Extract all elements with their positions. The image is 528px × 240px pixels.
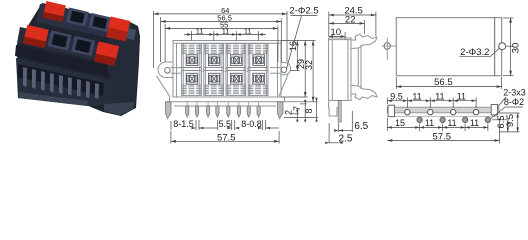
dimension 16 [281,41,300,71]
footprint top row holes [405,109,479,114]
dimension 8-1.5 / 5.5 / 8-0.8 [171,120,279,130]
photo right cap bottom light [104,102,134,115]
front view left ear slot lines [171,67,174,69]
front view right gusset [279,75,288,96]
footprint bottom row holes [417,117,491,122]
side view foot [329,101,339,117]
front view solder lugs [186,106,261,117]
front view right leg [278,102,284,119]
photo right cap top light [116,26,136,40]
svg-text:10: 10 [330,27,341,38]
svg-text:57.5: 57.5 [433,131,452,142]
top view right hole [499,43,506,50]
side view inner wall right [347,40,349,101]
front view bottom flange [170,101,285,103]
dimension 6.5 (footprint) [492,120,510,132]
front view terminal columns [173,43,281,97]
svg-text:8-Φ2: 8-Φ2 [504,97,524,107]
side view clip [351,34,377,49]
svg-text:15: 15 [395,118,405,128]
photo teeth band [18,64,104,96]
svg-text:56.5: 56.5 [434,77,453,88]
svg-text:11: 11 [435,92,444,102]
front view body outline [173,41,281,98]
dimension 22 [329,20,365,34]
svg-text:11: 11 [412,92,421,102]
back row button 3 black [88,13,111,32]
leader 2-3x3 [498,97,506,107]
dimension 57.5 (front) [171,131,279,144]
dimension 32 [285,41,318,102]
svg-text:5.5: 5.5 [219,119,232,129]
photo body silhouette [17,3,140,116]
front row button 4 red [94,41,119,66]
dimension 2.5 (side) [329,123,339,144]
photo right cap [106,24,140,115]
dimension 29 [281,41,308,98]
svg-text:8-0.8: 8-0.8 [241,119,262,129]
svg-text:8-1.5: 8-1.5 [173,119,194,129]
front view inner side walls [176,43,178,97]
svg-text:11: 11 [244,27,252,36]
svg-text:6.5: 6.5 [354,121,368,132]
photo base wedge [16,58,122,106]
dimension 56.5 top [161,17,282,62]
svg-text:11: 11 [222,27,230,36]
dimension 10 [329,32,346,40]
side view inner wall [331,40,333,101]
front view left gusset [157,76,171,97]
front row button 1 red [23,25,49,48]
svg-text:32: 32 [304,60,314,70]
dimension 55 [165,24,278,62]
dimension 64 [153,11,287,68]
front view gap slot lines [203,68,204,70]
photo base rim highlight [19,92,88,106]
photo teeth gaps [23,67,99,99]
front view inner top line [173,42,281,44]
leader 2-phi3.2 underline [459,48,499,57]
svg-text:30: 30 [511,43,522,54]
svg-text:11: 11 [196,27,204,36]
footprint band [387,107,499,113]
front row button 2 black [48,30,72,50]
side view top cap line [329,39,351,41]
dimension 57.5 (footprint) [387,118,499,144]
side view pin [338,101,341,123]
svg-text:9.5: 9.5 [505,114,516,127]
front view left leg [166,102,172,119]
top view left ear hole [384,43,390,49]
front view left ear hole [165,68,171,74]
front view buttons [186,55,264,84]
back row button 1 red [43,1,66,22]
svg-text:22: 22 [345,14,356,25]
svg-text:11: 11 [447,118,456,128]
footprint bottom dim row 15 11 11 11 [387,118,488,131]
dimension 6.5 (side) [339,111,353,132]
dimension 24.5 [329,12,376,38]
front view lug roots [187,102,258,106]
svg-text:11: 11 [470,118,479,128]
top view left hole centerlines [382,38,397,61]
svg-text:57.5: 57.5 [217,132,236,143]
leader 8-phi2 [491,107,523,119]
side view body [329,38,351,101]
svg-text:2.5: 2.5 [339,133,353,144]
svg-text:2-3x3: 2-3x3 [503,88,526,98]
back row button 4 red [106,16,130,41]
leader 2-phi2.5 [287,16,318,69]
front row button 3 black [71,36,95,56]
front view left ear [158,62,173,78]
footprint lower line [387,115,499,117]
footprint left square hole [388,105,395,117]
back row button 2 black [66,7,89,26]
svg-text:11: 11 [457,92,466,102]
front view margin slot lines [173,67,182,69]
top view inner right line [494,18,496,76]
photo mid deck band [17,27,126,66]
photo: speaker terminal block [15,1,140,116]
photo top deck band [36,4,132,42]
dimension 11 pitch row (front view) [184,31,266,41]
dimension 30 [503,18,514,76]
top view outline [396,18,501,76]
front view right ear hole [281,67,287,73]
photo front ledge [15,45,124,80]
dimension 9.5 (footprint) [499,113,520,132]
footprint top dim row 9.5 11 11 11 [387,98,476,109]
svg-text:11: 11 [425,118,434,128]
svg-text:9.5: 9.5 [390,92,403,102]
front view right ear [281,63,291,75]
dimension 56.5 (top view) [396,77,501,89]
svg-text:2-Φ2.5: 2-Φ2.5 [289,6,318,17]
footprint right square hole [491,105,497,115]
